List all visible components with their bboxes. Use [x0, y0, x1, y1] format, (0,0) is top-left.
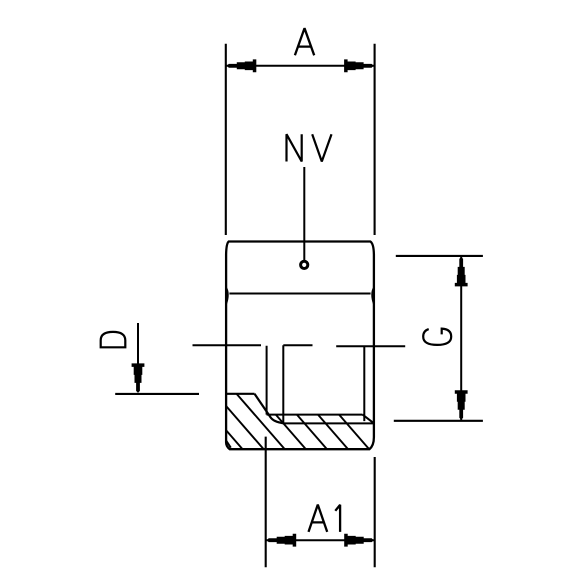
bore right inner vertical: [363, 346, 365, 421]
label G rotated: [423, 329, 451, 345]
dimension A1 left extension line: [265, 437, 267, 568]
dimension D dimension line: [137, 323, 139, 368]
label NV: [287, 134, 332, 161]
bore face line middle: [283, 344, 312, 346]
dimension A1 left arrowhead: [267, 534, 297, 547]
dimension A left arrowhead: [227, 59, 256, 72]
bore bottom upper line: [267, 414, 363, 416]
label D rotated: [101, 332, 126, 347]
section step diagonal: [255, 394, 284, 424]
dimension A dimension line: [226, 65, 375, 67]
bore face line right: [336, 345, 405, 347]
label A1: [309, 505, 341, 532]
dimension D datum line: [115, 393, 199, 395]
left hex chamfer arc: [226, 288, 228, 305]
bore left inner vertical: [282, 345, 284, 423]
right hex chamfer arc: [372, 288, 374, 305]
dimension A1 right arrowhead: [344, 534, 374, 547]
label A: [295, 28, 314, 55]
dimension G bottom extension line: [394, 420, 483, 422]
nut body outline: [226, 242, 374, 450]
dimension G top arrowhead: [455, 257, 468, 287]
NV leader line: [303, 167, 305, 261]
dimension A left extension line: [225, 44, 227, 235]
dimension A right extension line: [374, 44, 376, 235]
dimension A1 right extension line: [374, 457, 376, 567]
dimension G top extension line: [396, 255, 483, 257]
hatch lines: [189, 388, 371, 452]
dimension A1 dimension line: [266, 539, 375, 541]
dimension D arrowhead: [132, 363, 145, 393]
dimension G dimension line: [460, 256, 462, 421]
NV leader circle: [301, 261, 308, 268]
chamfer line: [229, 293, 370, 295]
bore bottom lower line: [283, 422, 374, 424]
section step top edge: [226, 393, 255, 395]
dimension G bottom arrowhead: [455, 390, 468, 420]
bottom-left inner chamfer: [226, 441, 231, 448]
bore left outer vertical: [266, 346, 268, 415]
bore face line left / D extension: [193, 344, 262, 346]
bore bottom right chamfer diagonal: [363, 415, 374, 424]
dimension A right arrowhead: [344, 59, 374, 72]
